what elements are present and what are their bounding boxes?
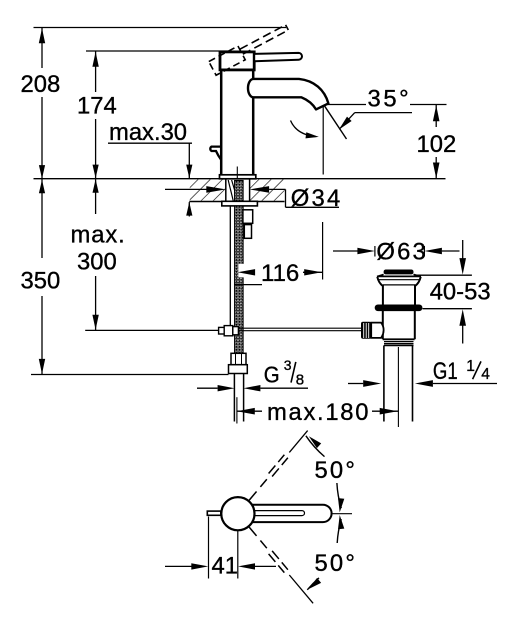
svg-text:Ø34: Ø34 xyxy=(291,185,343,212)
svg-text:3: 3 xyxy=(284,357,292,373)
svg-text:208: 208 xyxy=(21,71,61,98)
svg-text:35°: 35° xyxy=(368,86,412,113)
svg-text:102: 102 xyxy=(417,131,457,158)
svg-text:41: 41 xyxy=(212,553,238,580)
svg-text:G1: G1 xyxy=(433,357,458,385)
svg-text:Ø63: Ø63 xyxy=(376,239,428,266)
svg-text:50°: 50° xyxy=(315,457,358,484)
svg-text:300: 300 xyxy=(77,249,117,276)
svg-text:50°: 50° xyxy=(315,550,358,577)
svg-text:174: 174 xyxy=(77,93,117,120)
svg-text:40-53: 40-53 xyxy=(430,279,491,306)
svg-text:max.30: max.30 xyxy=(109,119,187,146)
svg-text:1: 1 xyxy=(466,358,475,375)
svg-text:350: 350 xyxy=(21,268,61,295)
svg-text:max.180: max.180 xyxy=(267,399,370,426)
svg-text:116: 116 xyxy=(261,260,299,287)
svg-text:max.: max. xyxy=(71,222,126,249)
svg-text:8: 8 xyxy=(296,371,304,388)
svg-text:G: G xyxy=(264,361,280,388)
svg-text:4: 4 xyxy=(481,366,490,383)
